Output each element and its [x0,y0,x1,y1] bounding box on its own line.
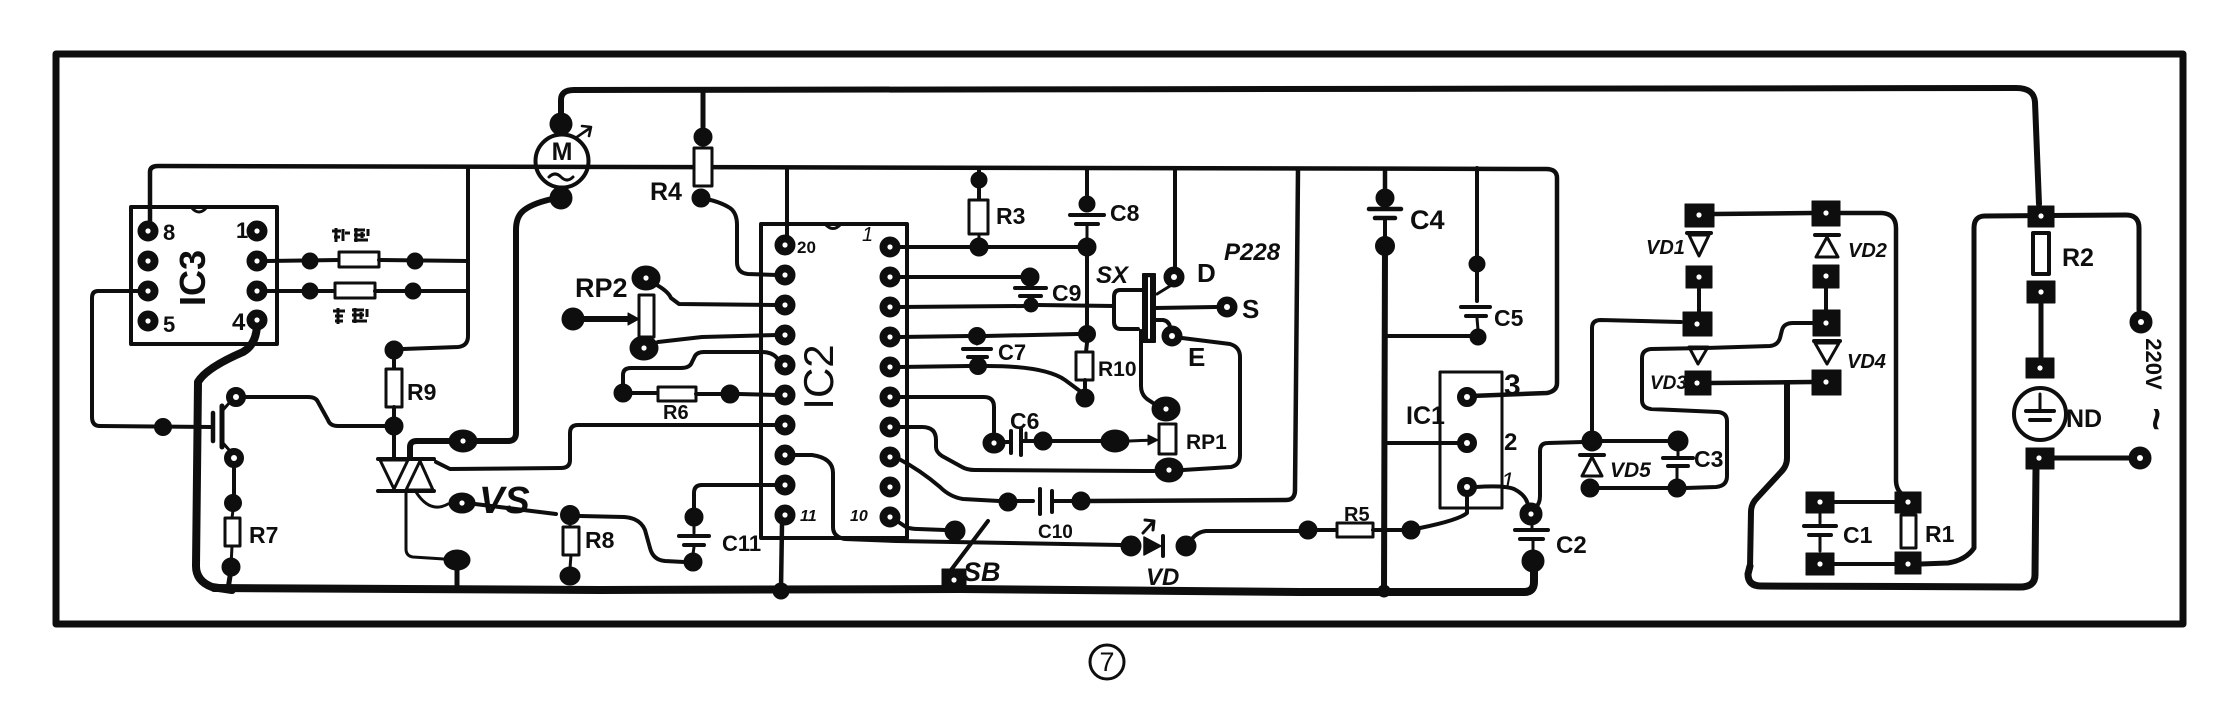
IC2 pin left row 425 [775,415,795,435]
svg-text:SB: SB [963,557,1001,587]
wire IC2 row455 to VD anode (long bottom wire) [790,455,1121,545]
transistor Q (unlabelled) [211,413,216,441]
IC2 pin right row 517 [880,507,900,527]
IC2 pin left row 335 [775,325,795,345]
svg-text:R9: R9 [407,379,436,405]
svg-text:VD4: VD4 [1847,351,1886,373]
svg-text:IC2: IC2 [795,344,842,409]
wire IC2 row485 to C11 top [694,485,785,509]
IC2 box [761,224,907,538]
wire C5 riser [1475,168,1479,256]
wire junction up to VD1 mid pad [1592,320,1681,432]
wire E pad loop to RP1 bottom [1182,338,1240,470]
switch SX body [1143,274,1155,342]
svg-text:C1: C1 [1843,522,1873,548]
wire C1 top to R1 top [1834,500,1895,504]
svg-text:RP1: RP1 [1186,431,1227,454]
node MT2 pad [449,430,477,452]
node MT1 ground pad [444,550,470,570]
node VD4 top pad [1813,310,1840,336]
wire IC2 row427 to RP1 bottom / E net [899,427,1154,471]
wire triac to IC2 pin13 row425 [436,425,779,469]
wire R2 junction horizontal [1985,215,2139,310]
svg-text:P228: P228 [1224,239,1281,266]
wire IC2 row277 to C9 [899,275,1022,279]
wire R4 to IC2 row275 [701,198,777,275]
diode VD4 [1814,339,1840,343]
diode VD [1121,536,1141,556]
wire IC2 row397 to C6 [899,397,994,432]
wire junction to C2 top [1535,442,1583,508]
wire SX to E pad [1155,320,1170,327]
svg-text:R3: R3 [996,203,1025,229]
svg-text:IC3: IC3 [172,250,213,306]
wire R1 bottom to left riser [1921,216,1985,564]
IC3 pin 8 [138,221,158,241]
wire VD2 pad to R1 top (right riser) [1840,213,1903,495]
wire heater select vertical x468 [403,167,468,349]
IC2 pin right row 337 [880,327,900,347]
capacitor C3 [1668,431,1688,451]
wire D-pad drop [1173,168,1177,267]
IC3 pin4 thick trace to ground bus [196,323,257,590]
svg-text:11: 11 [800,508,817,525]
wire R8 top to C11 bottom [580,516,684,562]
svg-text:5: 5 [163,312,175,337]
capacitor C11 [685,508,703,526]
svg-text:3: 3 [1504,369,1521,402]
wire VS gate to R8 top [475,504,556,514]
IC1 box [1440,372,1502,508]
svg-text:E: E [1188,342,1205,372]
diode VD1 top pad [1685,204,1714,227]
resistor R10 [1086,343,1087,352]
diode VD5 [1580,453,1604,457]
wire VD to R5 [1192,531,1300,539]
resistor R3 [977,168,981,201]
wire C10 net riser x1298 [1088,169,1298,501]
wire SX to S pad [1155,307,1216,308]
svg-text:R6: R6 [663,402,689,424]
IC3 pin row3 left [138,281,158,301]
svg-text:VD3: VD3 [1650,373,1687,394]
svg-text:M: M [552,138,573,166]
wire IC2 pin10 to SB [897,521,945,530]
diode VD2 [1815,233,1839,237]
motor M [536,135,589,188]
resistor high-heat [335,283,375,298]
IC2 pin right row 247 [880,237,900,257]
svg-text:C3: C3 [1694,446,1723,472]
IC3 pin 1 [247,221,267,241]
wire C4 to C5 bottom link [1385,334,1470,338]
bottom ground bus left segment [214,571,1534,592]
wire transistor source down [232,467,236,496]
IC2 pin left row 275 [775,265,795,285]
wire high-heat chain [267,289,335,293]
capacitor C8 [1085,168,1089,197]
wire SX bracket to RP1 top [1141,331,1156,405]
wire IC2 pin11 to ground bus [781,524,782,589]
wire top supply bus from motor to R2 [561,88,2039,204]
svg-text:VD2: VD2 [1848,240,1887,262]
svg-text:D: D [1197,258,1216,288]
svg-text:2: 2 [1504,429,1517,456]
svg-text:VD: VD [1146,564,1179,591]
svg-text:10: 10 [850,508,868,525]
capacitor C6 [983,433,1005,453]
svg-text:8: 8 [163,220,175,245]
wire RP2 top to IC2 row305 [655,284,777,305]
svg-text:R4: R4 [650,178,682,206]
figure number circle [1090,645,1124,679]
resistor R8 [561,506,580,525]
IC1 pin 2 [1458,434,1477,453]
svg-text:220V: 220V [2141,338,2166,390]
wire ND to 220V terminal [2054,456,2128,461]
svg-text:~: ~ [2134,407,2178,430]
wire low-heat chain [267,260,339,261]
svg-text:4: 4 [232,309,246,336]
capacitor C7 [976,336,979,344]
node 220V terminal lower [2129,447,2151,469]
label low-heat (Chinese) [332,228,368,242]
resistor R1 [1895,492,1921,513]
IC2 pin right row 427 [880,417,900,437]
resistor R6 [614,384,632,402]
capacitor C4 [1376,189,1394,207]
svg-text:S: S [1242,294,1259,324]
IC3 pin 4 [247,310,267,330]
svg-text:RP2: RP2 [575,273,628,303]
node VD1 lower pad [1683,312,1712,336]
capacitor C9 [1021,268,1039,286]
node S pad [1217,297,1237,317]
svg-text:C6: C6 [1010,408,1039,434]
node pad before RP1 [1101,430,1129,452]
IC2 pin left row 485 [775,475,795,495]
capacitor C5 [1469,256,1485,272]
svg-text:SX: SX [1096,262,1130,289]
node VD5/C3 top junction [1582,431,1602,451]
svg-text:VS: VS [479,480,530,522]
IC2 pin right row 397 [880,387,900,407]
node 220V terminal upper [2130,311,2152,333]
wire IC2 row367 to C7 bottom [899,366,969,367]
resistor R2 [2028,206,2054,227]
border frame [56,54,2183,624]
wire transistor drain to R9 bottom [245,397,386,426]
svg-text:R7: R7 [249,522,278,548]
svg-text:R5: R5 [1344,504,1370,526]
wire VD5 bottom to C3 bottom to VD4 pad (loop) [1599,486,1668,490]
capacitor C2 [1520,503,1542,525]
capacitor C1 [1806,492,1834,513]
svg-text:7: 7 [1099,647,1114,677]
svg-text:C10: C10 [1038,522,1073,543]
svg-text:VD5: VD5 [1610,459,1651,482]
svg-text:C4: C4 [1410,205,1445,235]
wire motor bottom to triac MT2 (thick) [410,199,552,458]
wire IC3 pin3 to transistor gate [92,291,211,427]
IC2 pin left row 395 [775,385,795,405]
resistor R4 [694,128,712,146]
resistor R5 [1299,521,1317,539]
wire IC2 pin1 to R3/C8 [899,245,970,249]
wire IC1 pin2 link [1384,441,1459,445]
IC1 pin 1 [1458,478,1477,497]
IC3 pin row2 left [138,251,158,271]
wire bridge bottom rail [1710,382,1812,383]
IC2 pin left row 245 [775,235,795,255]
svg-text:C9: C9 [1052,280,1081,306]
svg-text:C7: C7 [998,340,1026,365]
resistor R7 [232,510,233,518]
wire RP2 bottom to IC2 row335 [658,335,777,342]
bottom ground bus right segment [1748,468,2036,587]
wire R4 top branch to bus [701,91,706,127]
wire triac MT1 to ground pad [406,491,444,559]
potentiometer RP1 [1152,397,1180,421]
IC2 pin right row 307 [880,297,900,317]
svg-text:20: 20 [797,238,816,257]
wire IC1 pin1 to C2 top [1476,486,1528,505]
wire C1 bottom to R1 bottom [1834,562,1895,566]
wire R6 left to IC2 row365 [623,352,782,393]
wire main horizontal net (IC3 pin8 to IC1 pin3) [150,166,1557,396]
wire IC2 row337 to C7/R10/C8 [900,336,969,337]
IC2 pin right row 457 [880,447,900,467]
svg-text:C5: C5 [1494,305,1524,331]
wire bridge to ground bus (thick drop) [1750,383,1787,568]
IC2 pin left row 365 [775,355,795,375]
svg-text:VD1: VD1 [1646,237,1685,259]
svg-text:R10: R10 [1098,358,1137,381]
neon lamp ND [2026,358,2054,378]
wire C7 bottom to R10 bottom [987,366,1085,395]
IC2 pin left row 455 [775,445,795,465]
IC2 pin right row 487 [880,477,900,497]
svg-text:1: 1 [1501,468,1514,495]
svg-text:R2: R2 [2062,244,2094,272]
IC2 pin left row 305 [775,295,795,315]
IC2 pin left row 515 [775,505,795,525]
wire C4/C5/IC1 thick vertical x1385 [1383,169,1388,190]
label high-heat (Chinese) [333,308,367,324]
IC3 pin row3 right [247,281,267,301]
wire IC2 pin20 drop [785,168,789,240]
triac VS [378,457,434,461]
node E pad [1162,326,1182,346]
svg-text:IC1: IC1 [1406,402,1445,430]
potentiometer RP2 [632,266,660,290]
switch SB [945,521,965,541]
wire IC2 row307 through C9 to SX [899,306,1024,307]
svg-text:1: 1 [862,224,873,246]
svg-text:C2: C2 [1556,532,1587,559]
IC2 pin right row 277 [880,267,900,287]
node gate wire junction [155,419,172,436]
IC3 pin row2 right [247,251,267,271]
resistor R9 [385,341,403,359]
wire SX left bracket [1114,290,1143,329]
wire R5 to IC1 pin1 [1420,496,1467,528]
svg-text:1: 1 [236,218,248,243]
diode VD1 [1687,231,1711,235]
wire IC2 row457 to C10 [899,459,999,501]
diode VD3 [1689,347,1708,364]
IC3 box [131,207,277,344]
node D pad [1164,267,1184,287]
svg-text:R1: R1 [1925,521,1955,547]
svg-text:C8: C8 [1110,200,1140,226]
resistor low-heat [339,252,379,267]
svg-text:C11: C11 [722,531,761,556]
svg-text:R8: R8 [585,527,615,553]
diode VD2 top pad [1812,201,1840,226]
svg-text:ND: ND [2066,405,2102,433]
IC1 pin 3 [1458,388,1477,407]
wire junction to C3 top [1602,439,1667,443]
node VS gate pad [449,493,475,513]
IC3 pin 5 [138,311,158,331]
IC2 pin right row 367 [880,357,900,377]
capacitor C10 [999,493,1017,511]
wire R9 to triac [392,431,396,458]
wire bridge top rail [1714,213,1812,214]
